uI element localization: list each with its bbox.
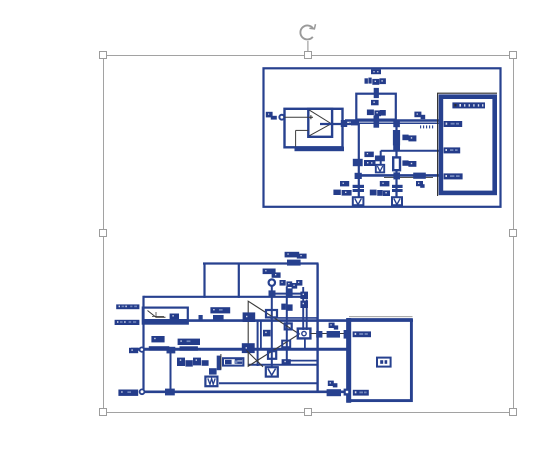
label R2 value 1k (402, 135, 416, 142)
label V1 (266, 112, 277, 120)
label VIN (116, 304, 139, 309)
label R5 value (149, 346, 170, 350)
label R3 value 1k (402, 160, 416, 166)
ground GND2 (376, 165, 384, 173)
selection frame (104, 56, 514, 413)
source V2 inner pad (170, 314, 179, 320)
wire left vertical (142, 296, 144, 392)
wire bottom bus (142, 390, 347, 393)
wire vertical v6b (260, 321, 262, 350)
capacitor C8 top plate (374, 88, 379, 98)
node junction v2 bottom (165, 389, 175, 396)
pin block a (280, 280, 286, 286)
node junction R7 left (316, 331, 322, 338)
label R7 (329, 323, 339, 330)
wire vertical v8 (286, 287, 288, 365)
pin block c (292, 283, 298, 289)
label Ugs (177, 358, 209, 367)
label IC pin MCLK (444, 121, 463, 127)
pad s2 (243, 312, 256, 322)
op-amp U1 enclosure thick bottom (295, 147, 345, 152)
label IC pin FSYNC (444, 147, 461, 153)
label U2 title (452, 102, 485, 108)
wire feedback horizontal (296, 129, 309, 131)
label R5 (151, 336, 164, 342)
wire vertical v6a (257, 321, 259, 366)
wire mid bus (131, 348, 347, 351)
wire tall right vertical (316, 264, 318, 393)
label U3 (263, 269, 281, 278)
source V2 ticks (152, 312, 164, 317)
resistor R8 (327, 389, 341, 396)
pad s1 (266, 310, 277, 317)
pad s4 (282, 341, 290, 348)
wire stub bottom right (290, 360, 318, 362)
wire upper bus thick (345, 119, 439, 121)
wire center rect bottom (248, 364, 318, 366)
wire top rail (203, 262, 319, 264)
capacitor C7 plates (353, 185, 364, 188)
input terminal node (279, 115, 284, 120)
capacitor C5 plates (392, 185, 403, 188)
wire vertical v3 (203, 264, 205, 298)
capacitor C8 bottom plate (374, 115, 380, 127)
node below gate (209, 368, 217, 374)
wire inner rail (272, 293, 302, 295)
source V2 waveform (148, 311, 166, 318)
wire rail 2 (144, 296, 308, 298)
label IC pin SDATA (444, 173, 463, 179)
wire feedback vertical (295, 130, 297, 146)
wire vertical v9b (306, 300, 308, 331)
right block shadow (349, 316, 413, 318)
label VSS (118, 390, 138, 396)
schematic 1 border (264, 68, 501, 207)
node bus2 right blob (413, 173, 426, 179)
ground center GND4 (266, 367, 278, 376)
resistor R9 (223, 358, 243, 365)
label C3 (416, 181, 425, 188)
wire loop around C8 (356, 94, 396, 120)
right block left edge bar (346, 318, 351, 403)
IC U2 shadow (438, 93, 497, 196)
resistor R7 (327, 331, 340, 338)
component bar (287, 288, 292, 297)
node junction R7 right (344, 330, 351, 339)
node junction R8 right (344, 389, 351, 396)
rotation handle stem (307, 41, 309, 51)
node junction C mid (393, 145, 400, 151)
label C8 (371, 69, 381, 74)
label SD box (377, 358, 391, 367)
wire bus2 shadow (384, 177, 433, 179)
label R1 (371, 100, 379, 105)
label C6 (364, 152, 376, 166)
ground GND1 (353, 197, 364, 205)
wire to R7 black (310, 333, 346, 335)
node junction v2 top (167, 347, 176, 354)
node junction below circle (269, 290, 276, 296)
node junction bus2 line A (355, 173, 362, 179)
pad s5 (263, 330, 271, 337)
wire lower branch (219, 382, 319, 384)
node on rail3 (199, 315, 203, 320)
label C9 (414, 112, 425, 120)
wire comparator output (297, 333, 300, 335)
node junction bus1 line C (393, 121, 400, 127)
wire input to op-amp (284, 116, 308, 118)
pad p1 on v9 (300, 292, 308, 299)
wire branch C vertical (395, 124, 397, 198)
op-amp U1 enclosure (285, 109, 343, 148)
wire vertical v4 (238, 264, 240, 298)
label R6 value (180, 346, 198, 350)
wire bus2 (357, 174, 439, 177)
node junction C bus2 (393, 172, 400, 179)
pad on v8 (287, 304, 293, 310)
node output junction (341, 120, 347, 127)
label C8 value 1.1uF (365, 78, 386, 85)
pad p2 on v9 (300, 301, 308, 308)
wire to IC pin 2 (397, 150, 441, 152)
wire branch B horizontal (381, 150, 397, 152)
op-amp U1 triangle (310, 110, 332, 136)
node input circle (269, 279, 275, 285)
wire vertical v2 (170, 349, 172, 392)
wire branch A vertical (358, 124, 360, 198)
pin block b (286, 281, 292, 287)
pin block d (296, 280, 302, 286)
label C7 (340, 181, 349, 186)
label pin IN- (353, 390, 369, 396)
right block load (348, 320, 412, 401)
selection handles (100, 52, 517, 416)
label C7 value 100nF (333, 190, 351, 196)
label R6 (178, 339, 200, 345)
pad s7 (268, 351, 276, 359)
label C5 value 1.1uF (370, 190, 390, 196)
wire vertical v9 (302, 287, 304, 330)
wire rail 3 (143, 319, 414, 322)
bus tick marks (421, 125, 433, 128)
op-amp U1 body (308, 109, 332, 137)
supply VDD block (287, 260, 301, 266)
label pin IN+ (353, 331, 371, 337)
IC U2 body (441, 97, 495, 193)
label VDD top (285, 252, 307, 259)
capacitor left plates (235, 358, 242, 364)
resistor R2 (394, 131, 400, 145)
wire marker to mid bus (304, 339, 306, 350)
node bus junction (351, 120, 359, 125)
op-amp U1 plus input mark (309, 115, 313, 119)
label C5 (380, 181, 390, 186)
resistor R3 (393, 157, 400, 170)
label node T (210, 307, 230, 313)
pad s3 (285, 323, 292, 329)
node terminal bottom bus (140, 389, 145, 394)
node blobs left of mid bus (129, 348, 138, 353)
pad s8 (282, 359, 291, 365)
wire op-amp output (320, 123, 352, 125)
source V2 block (143, 308, 188, 324)
transistor M1 drain stub (220, 354, 222, 370)
label VIN value (115, 320, 140, 325)
rotation handle circular arrow (300, 24, 315, 39)
wire branch B vertical (380, 151, 382, 165)
ground GND3 (392, 197, 402, 205)
pad below label T (213, 315, 224, 320)
node terminal mid bus (140, 347, 144, 351)
transistor M1 arrow (246, 350, 263, 366)
capacitor C6 body (353, 159, 363, 166)
ground M box GND5 (205, 377, 217, 387)
output marker node (298, 329, 311, 339)
comparator triangle (248, 301, 299, 366)
wire rail 3 upper pair (270, 317, 318, 319)
transistor M1 gate bar (217, 356, 222, 371)
wire upper bus thin (349, 122, 439, 124)
label R1 value (367, 110, 386, 117)
pad s6 (242, 343, 255, 353)
label R8 (328, 381, 338, 388)
wire vertical v7 (271, 286, 273, 367)
capacitor C4 body (375, 156, 385, 162)
